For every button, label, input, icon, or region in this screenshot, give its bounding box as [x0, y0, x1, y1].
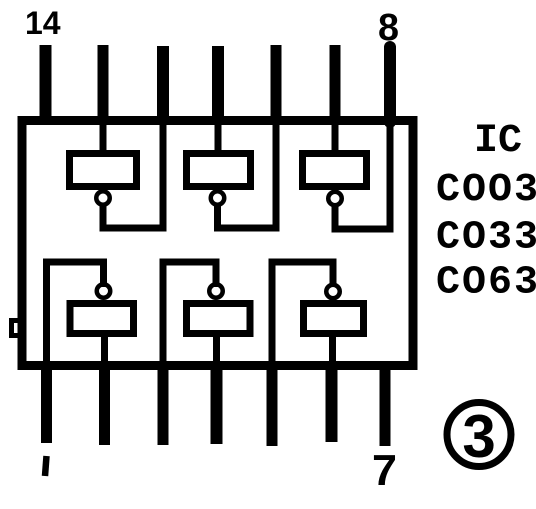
pin 1 index notch	[12, 321, 21, 336]
pin 7	[380, 363, 391, 446]
wire output inverter E to pin 3	[163, 262, 216, 367]
wire output inverter A to pin 12	[103, 119, 163, 228]
inverter E body	[187, 304, 251, 334]
inverter A body	[70, 154, 137, 187]
pin 10	[271, 45, 282, 122]
svg-text:14: 14	[25, 5, 61, 41]
IC body U1 outline	[22, 121, 413, 366]
pin 2	[99, 363, 110, 445]
inverter D output bubble	[97, 284, 111, 298]
inverter B output bubble	[211, 191, 225, 205]
pin 4	[211, 363, 223, 444]
svg-text:COO3: COO3	[436, 168, 536, 213]
wire input inverter D from pin 2	[101, 333, 108, 367]
wire output inverter F to pin 5	[272, 262, 333, 367]
inverter F output bubble	[326, 285, 340, 299]
pin 8	[384, 47, 396, 122]
wire input inverter F from pin 6	[329, 333, 336, 367]
svg-text:3: 3	[462, 403, 495, 470]
pin 6	[326, 363, 338, 442]
figure number circle	[447, 403, 511, 467]
pin 11	[212, 46, 224, 122]
inverter C body	[303, 154, 367, 187]
inverter E output bubble	[209, 284, 223, 298]
inverter D body	[70, 304, 134, 334]
pin 1 label "1"	[45, 456, 47, 476]
wire output inverter B to pin 10	[218, 119, 277, 228]
svg-text:7: 7	[372, 446, 397, 495]
pin 12	[157, 46, 169, 122]
pin 3	[158, 363, 169, 445]
inverter C output bubble	[328, 192, 342, 206]
wire input inverter E from pin 4	[213, 333, 220, 367]
wire input inverter A from pin 13	[100, 120, 107, 153]
svg-text:IC: IC	[474, 119, 522, 164]
wire output inverter C to pin 8	[335, 119, 390, 229]
inverter B body	[187, 154, 251, 187]
inverter F body	[304, 304, 364, 334]
pin 1	[41, 363, 52, 443]
svg-text:CO33: CO33	[436, 216, 536, 261]
inverter A output bubble	[96, 191, 110, 205]
pin 14	[40, 45, 52, 122]
svg-text:CO63: CO63	[436, 261, 536, 306]
pin 5	[267, 363, 278, 446]
pin 9	[330, 45, 341, 122]
wire input inverter B from pin 11	[215, 120, 222, 153]
svg-text:8: 8	[378, 7, 399, 49]
wire output inverter D to pin 1	[47, 262, 104, 367]
wire input inverter C from pin 9	[332, 120, 339, 153]
pin 13	[98, 45, 109, 122]
